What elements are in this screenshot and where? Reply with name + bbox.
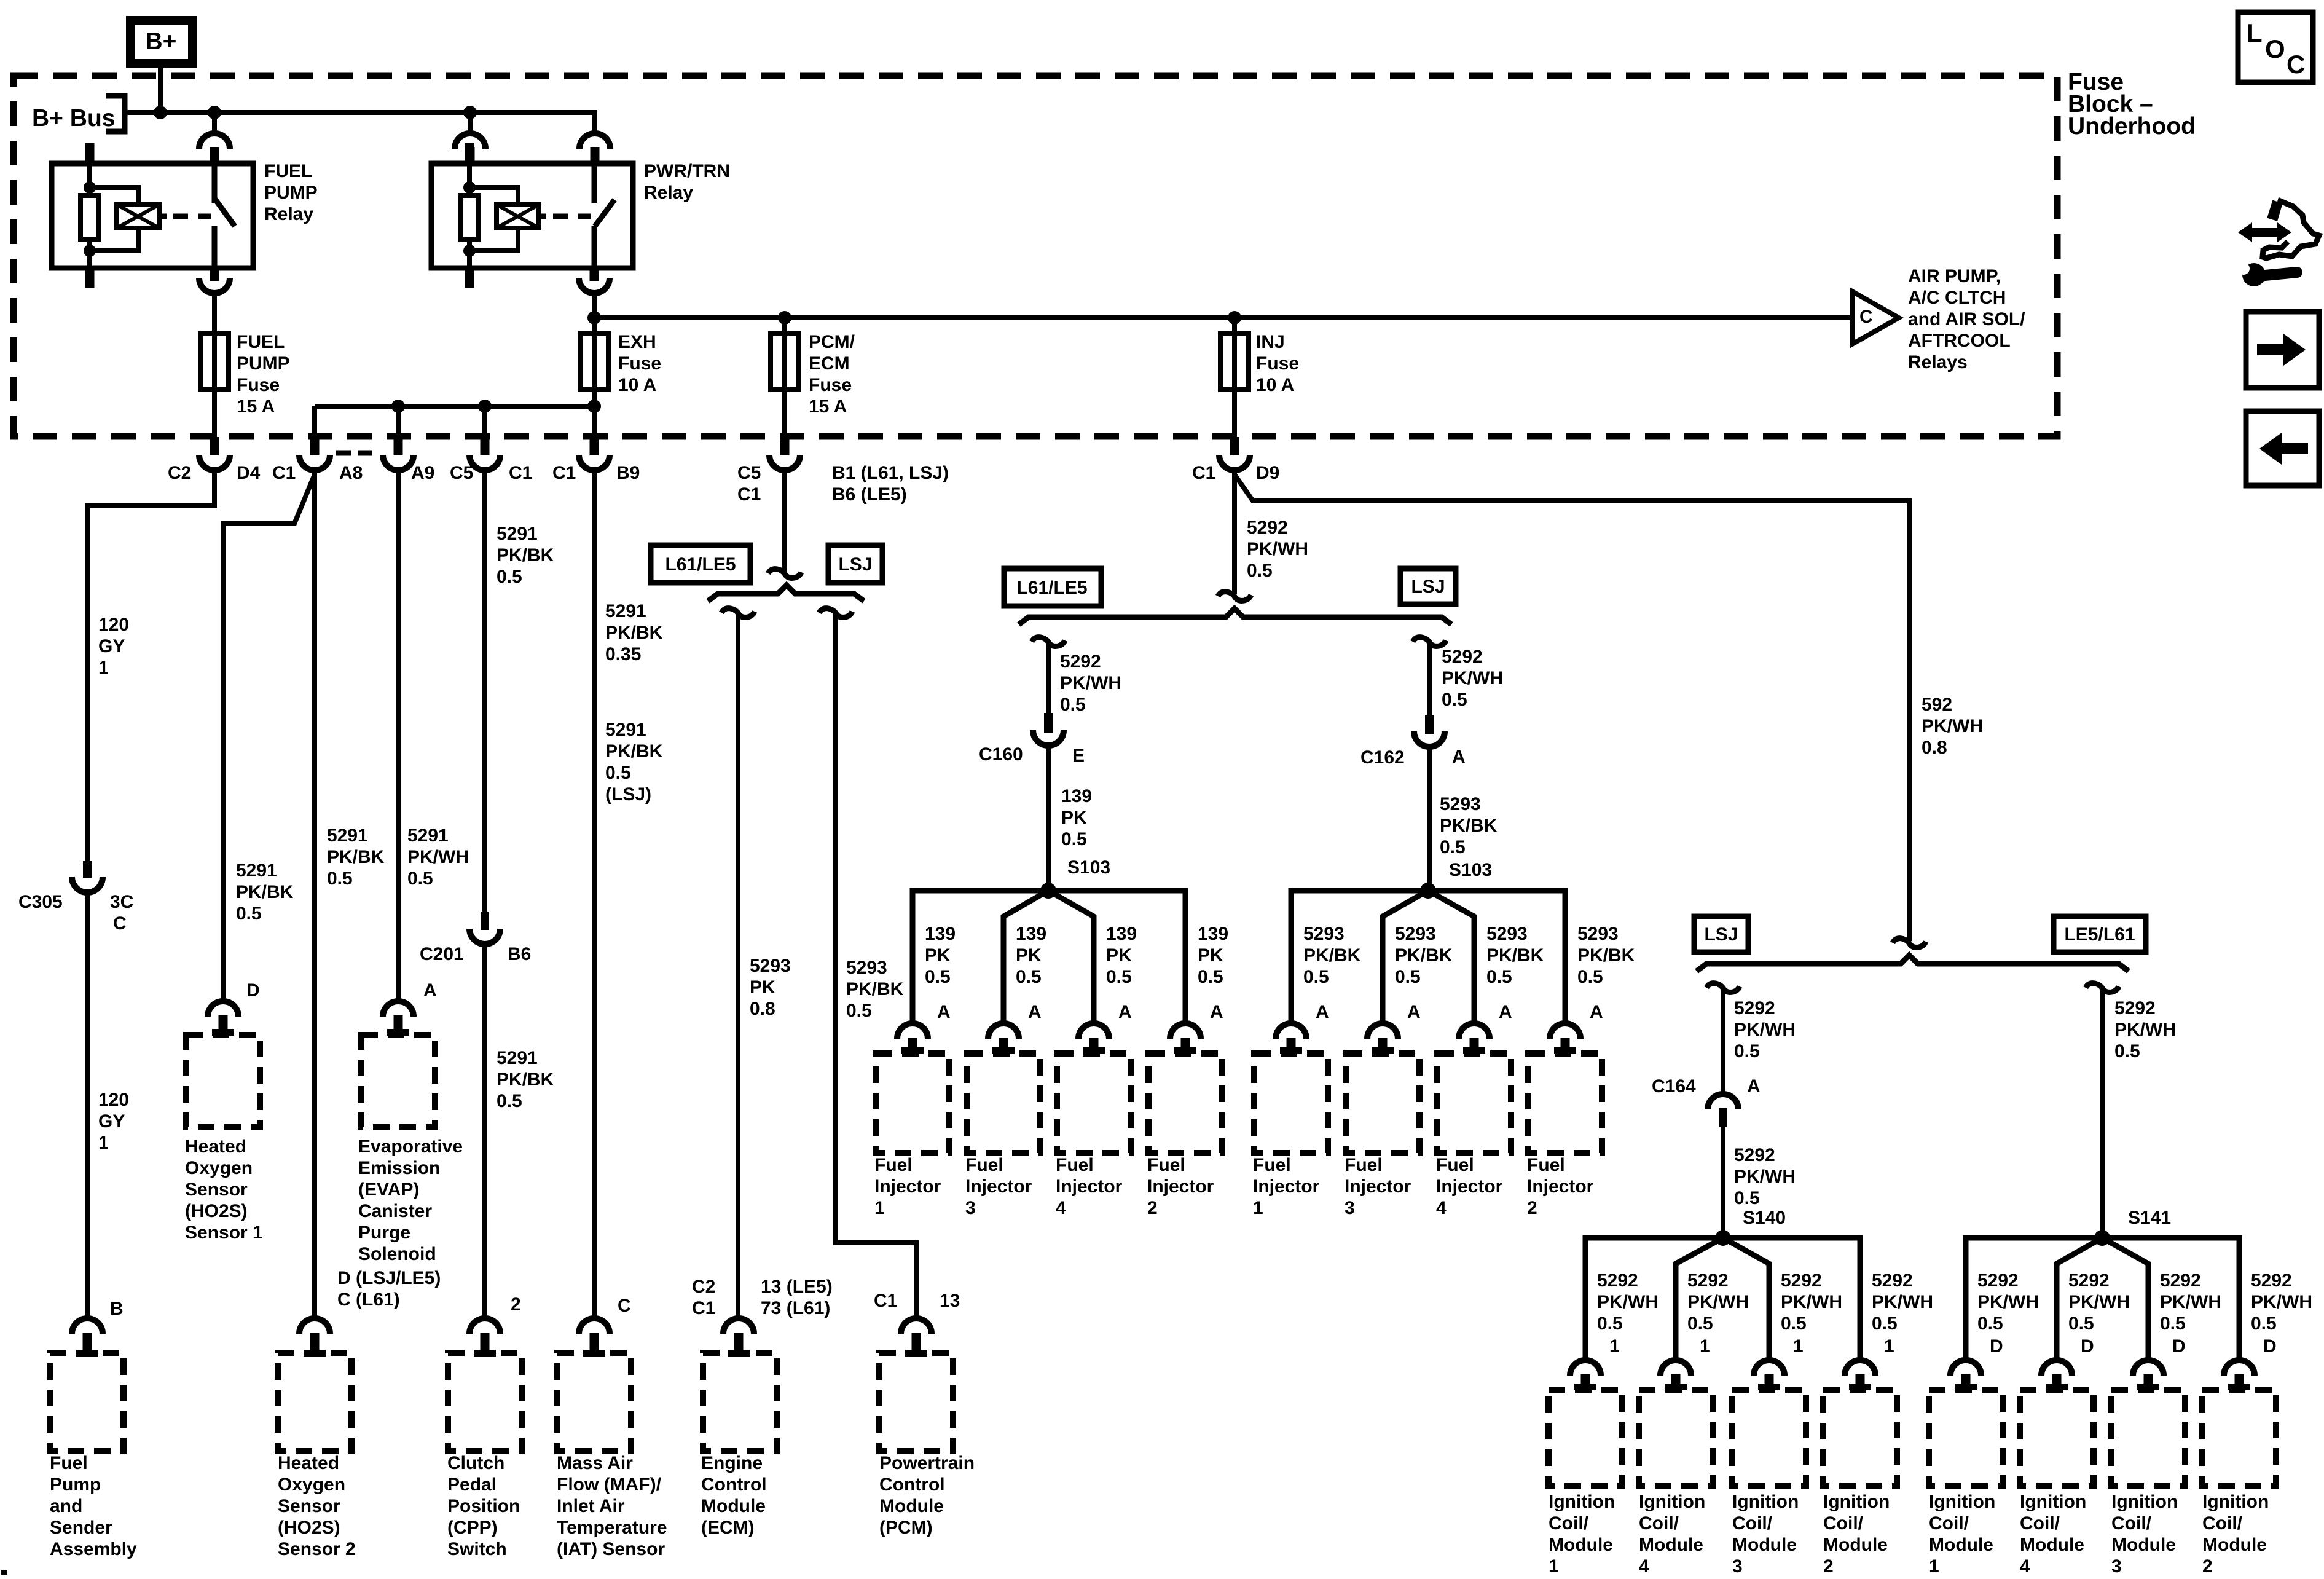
splice fan-out wires [1291, 891, 1565, 1025]
connector fuse block exit at x=1277 [780, 437, 790, 455]
svg-text:Fuel: Fuel [1527, 1155, 1565, 1175]
svg-text:0.5: 0.5 [1486, 967, 1512, 987]
fuse INJ Fuse 10A [1220, 334, 1249, 390]
triangle connector C to other relays [1852, 291, 1899, 344]
label 139 PK 0.5 [1061, 786, 1092, 849]
svg-text:PCM/: PCM/ [809, 332, 855, 352]
svg-text:Fuel: Fuel [1436, 1155, 1474, 1175]
svg-text:Engine: Engine [701, 1453, 763, 1473]
svg-text:PK/WH: PK/WH [2160, 1292, 2221, 1312]
collector wire from EXH fuse output [315, 404, 594, 409]
svg-text:Injector: Injector [1436, 1176, 1503, 1197]
svg-text:5292: 5292 [2114, 998, 2156, 1018]
splice dot [1420, 883, 1436, 899]
connector pwr/trn relay coil pin top [455, 133, 485, 149]
svg-text:C: C [1859, 307, 1873, 327]
pin label C1 [509, 463, 532, 483]
pin label C5 C1 [737, 463, 761, 505]
svg-text:and AIR SOL/: and AIR SOL/ [1908, 309, 2025, 329]
icon arrow left [2246, 411, 2319, 486]
svg-text:FUEL: FUEL [237, 332, 285, 352]
svg-text:PK: PK [750, 977, 775, 998]
connector ignition coil pin 1 [1754, 1360, 1784, 1376]
svg-text:Coil/: Coil/ [2020, 1513, 2060, 1534]
label Heated Oxygen Sensor (HO2S) Sensor 1 [185, 1136, 263, 1243]
connector HO2S1 pin D [208, 1001, 238, 1017]
svg-text:Solenoid: Solenoid [358, 1244, 436, 1264]
component box Ignition Coil/Module 4 [2020, 1390, 2094, 1486]
junction dot PCM/ECM tap [778, 311, 791, 325]
connector fuel injector pin A [1459, 1023, 1490, 1039]
svg-text:592: 592 [1922, 695, 1952, 715]
svg-text:Injector: Injector [1345, 1176, 1411, 1197]
main feed wire to fuses and C triangle [594, 315, 1852, 320]
svg-text:Coil/: Coil/ [2111, 1513, 2152, 1534]
svg-text:S103: S103 [1449, 860, 1492, 880]
svg-text:Fuse: Fuse [1256, 353, 1299, 374]
component box Fuel Injector 4 [1057, 1053, 1131, 1153]
B+ Bus bracket symbol [106, 96, 125, 132]
relay switch bottom pin PWR/TRN Relay [590, 268, 599, 281]
pin label 1 [1884, 1336, 1894, 1357]
svg-text:B6 (LE5): B6 (LE5) [832, 484, 907, 505]
svg-text:5292: 5292 [1247, 518, 1288, 538]
svg-text:120: 120 [98, 615, 129, 635]
relay coil pin stubs FUEL PUMP Relay [85, 143, 95, 163]
splice dot [1715, 1230, 1731, 1246]
svg-text:Sensor: Sensor [278, 1496, 340, 1516]
svg-text:Powertrain: Powertrain [879, 1453, 975, 1473]
wire collector to D4/C1 out [312, 406, 317, 437]
label Engine Control Module (ECM) [701, 1453, 767, 1538]
svg-text:0.5: 0.5 [407, 868, 433, 889]
svg-text:Module: Module [1823, 1535, 1888, 1555]
svg-text:Assembly: Assembly [50, 1539, 137, 1559]
connector fuel injector pin A [897, 1023, 928, 1039]
tag box LSJ [828, 545, 882, 583]
label Ignition Coil/Module 1 [1549, 1492, 1615, 1577]
svg-text:PK/BK: PK/BK [497, 1069, 554, 1090]
junction dot B+ drop [154, 106, 167, 119]
icon service tools [2263, 201, 2319, 258]
pin label D9 [1256, 463, 1279, 483]
component box Ignition Coil/Module 1 [1929, 1390, 2003, 1486]
label Fuel Injector 3 [965, 1155, 1032, 1218]
label 5291 PK/BK 0.5 A9 lane [497, 524, 554, 587]
label 5292 PK/WH 0.5 S141 lane [2114, 998, 2176, 1061]
svg-text:0.5: 0.5 [1060, 695, 1086, 715]
svg-text:D9: D9 [1256, 463, 1279, 483]
svg-text:139: 139 [925, 924, 956, 944]
tag box LSJ second [1400, 569, 1456, 604]
wire INJ fuse tap through fuse [1232, 318, 1237, 437]
label Ignition Coil/Module 2 [2202, 1492, 2269, 1577]
connector pwr/trn relay switch pin top [579, 133, 610, 149]
svg-text:PK: PK [1198, 945, 1223, 966]
pin label D [246, 980, 260, 1001]
svg-text:(CPP): (CPP) [447, 1518, 498, 1538]
svg-text:Heated: Heated [185, 1136, 246, 1157]
svg-text:B6: B6 [508, 944, 531, 964]
pin label 3C C [110, 892, 133, 912]
wire C2 to C305 fuel pump lane [87, 473, 214, 861]
svg-text:INJ: INJ [1256, 332, 1285, 352]
fuse PCM/ECM Fuse 15A [771, 334, 799, 390]
svg-text:C1: C1 [1192, 463, 1215, 483]
branch hook C164 lane [1706, 983, 1740, 993]
component box Fuel Injector 3 [1346, 1053, 1419, 1153]
label Ignition Coil/Module 4 [1639, 1492, 1705, 1577]
svg-text:5291: 5291 [497, 524, 538, 544]
svg-text:Pedal: Pedal [447, 1475, 497, 1495]
svg-text:0.5: 0.5 [1687, 1313, 1713, 1334]
junction dot pwr/trn relay tap [463, 106, 477, 119]
splice fan-out wires [913, 891, 1185, 1025]
svg-text:1: 1 [1884, 1336, 1894, 1357]
connector fuel injector pin A [1276, 1023, 1306, 1039]
wire label 5292 PK/WH 0.5 coil lane [2251, 1270, 2312, 1334]
relay linkage dashes PWR/TRN Relay [539, 214, 546, 219]
svg-text:Coil/: Coil/ [1929, 1513, 1969, 1534]
wire label 139 PK 0.5 injector lane [1016, 924, 1046, 987]
svg-text:ECM: ECM [809, 353, 850, 374]
svg-text:A: A [1210, 1002, 1223, 1022]
svg-text:Ignition: Ignition [1639, 1492, 1705, 1512]
connector CPP pin 2 [469, 1318, 500, 1334]
svg-text:LSJ: LSJ [1704, 924, 1738, 945]
svg-text:FUEL: FUEL [264, 161, 312, 181]
pin label D4 [237, 463, 261, 483]
label S103 second [1449, 860, 1492, 880]
pin label C2 C1 [692, 1277, 715, 1318]
label S141 [2128, 1208, 2171, 1228]
svg-text:1: 1 [1929, 1556, 1939, 1577]
wire C201 to CPP switch [482, 947, 487, 1316]
svg-text:0.5: 0.5 [2114, 1041, 2140, 1061]
svg-text:Injector: Injector [1147, 1176, 1214, 1197]
svg-text:Module: Module [1732, 1535, 1797, 1555]
component box Fuel Injector 2 [1148, 1053, 1222, 1153]
svg-text:Mass Air: Mass Air [557, 1453, 633, 1473]
svg-text:Underhood: Underhood [2068, 113, 2196, 140]
svg-text:0.5: 0.5 [1106, 967, 1132, 987]
wire bus to fuel pump relay switch [212, 112, 217, 131]
svg-text:5292: 5292 [1442, 647, 1483, 667]
svg-text:(EVAP): (EVAP) [358, 1179, 419, 1200]
svg-text:D: D [2081, 1336, 2094, 1357]
svg-text:D: D [2263, 1336, 2277, 1357]
svg-text:C (L61): C (L61) [337, 1290, 400, 1310]
svg-text:A: A [1118, 1002, 1132, 1022]
svg-text:A: A [1316, 1002, 1329, 1022]
pin label C [618, 1296, 631, 1316]
svg-text:Ignition: Ignition [1929, 1492, 1995, 1512]
pin label B9 [616, 463, 640, 483]
component box EVAP Canister Purge Solenoid [361, 1035, 435, 1127]
svg-text:0.5: 0.5 [1247, 561, 1273, 581]
component box Ignition Coil/Module 2 [2202, 1390, 2276, 1486]
label PWR/TRN Relay [644, 161, 730, 203]
connector EVAP pin A [383, 1001, 414, 1017]
ignition split brace LSJ vs LE5/L61 [1697, 955, 2129, 971]
svg-text:GY: GY [98, 1111, 125, 1132]
wire label 139 PK 0.5 injector lane [925, 924, 956, 987]
svg-text:A: A [1407, 1002, 1421, 1022]
svg-text:4: 4 [1639, 1556, 1649, 1577]
connector ignition coil pin 1 [1570, 1360, 1601, 1376]
svg-text:3: 3 [1345, 1198, 1355, 1218]
wire label 139 PK 0.5 injector lane [1106, 924, 1137, 987]
label 5292 PK/WH 0.5 above S140 [1734, 1145, 1796, 1208]
svg-text:5292: 5292 [1060, 652, 1101, 672]
svg-text:Module: Module [1929, 1535, 1993, 1555]
svg-text:B: B [110, 1299, 124, 1319]
svg-text:Ignition: Ignition [1732, 1492, 1799, 1512]
label C164 [1652, 1076, 1696, 1097]
svg-text:C1: C1 [874, 1291, 897, 1311]
svg-text:5293: 5293 [1486, 924, 1528, 944]
pin label A [1747, 1076, 1761, 1097]
wire B1/B6 lane to split [782, 473, 787, 572]
svg-text:3C: 3C [110, 892, 133, 912]
label Fuel Injector 2 [1147, 1155, 1214, 1218]
label B+ Bus [32, 105, 115, 132]
svg-text:5292: 5292 [1872, 1270, 1913, 1291]
svg-text:C: C [2287, 50, 2305, 79]
svg-text:0.5: 0.5 [1597, 1313, 1623, 1334]
pin label A8 [339, 463, 363, 483]
svg-text:PK/WH: PK/WH [1872, 1292, 1933, 1312]
svg-text:Injector: Injector [1056, 1176, 1123, 1197]
component box Engine Control Module [703, 1353, 777, 1451]
svg-text:0.5: 0.5 [1061, 829, 1087, 849]
relay coil pin stubs PWR/TRN Relay [465, 143, 474, 163]
label Fuel Injector 1 [1253, 1155, 1320, 1218]
svg-text:C1: C1 [272, 463, 296, 483]
svg-text:and: and [50, 1496, 82, 1516]
svg-text:C1: C1 [509, 463, 532, 483]
svg-text:Ignition: Ignition [2111, 1492, 2178, 1512]
label 120 GY 1 [98, 615, 129, 678]
B+ power feed symbol [130, 20, 192, 63]
svg-text:Fuel: Fuel [1147, 1155, 1185, 1175]
wire bus to pwr/trn relay coil [468, 112, 473, 131]
svg-text:5291: 5291 [605, 601, 646, 621]
wire C162 to S103 second [1427, 749, 1432, 891]
wire label 139 PK 0.5 injector lane [1198, 924, 1228, 987]
svg-text:2: 2 [1527, 1198, 1537, 1218]
svg-text:0.5: 0.5 [1395, 967, 1421, 987]
wire to C164 [1721, 987, 1725, 1092]
svg-text:C164: C164 [1652, 1076, 1696, 1097]
svg-text:O: O [2265, 34, 2285, 63]
svg-text:C: C [113, 913, 127, 934]
svg-text:0.5: 0.5 [497, 1091, 522, 1111]
label FUEL PUMP Fuse 15 A [237, 332, 290, 417]
svg-text:B9: B9 [616, 463, 640, 483]
pin label 1 [1793, 1336, 1804, 1357]
svg-text:C2: C2 [692, 1277, 715, 1297]
connector fuel pump relay pin top [199, 133, 230, 149]
svg-text:B1 (L61, LSJ): B1 (L61, LSJ) [832, 463, 949, 483]
tag box LSJ third [1694, 916, 1748, 952]
svg-text:Control: Control [701, 1475, 767, 1495]
wire B+ to bus [158, 63, 163, 112]
svg-text:Relay: Relay [264, 204, 313, 224]
svg-text:0.5: 0.5 [236, 904, 262, 924]
svg-text:Fuse: Fuse [618, 353, 661, 374]
svg-text:(ECM): (ECM) [701, 1518, 755, 1538]
component box Fuel Injector 3 [967, 1053, 1040, 1153]
fuse EXH Fuse 10A [580, 334, 608, 390]
label Fuse Block - Underhood [2068, 69, 2196, 140]
wire label 5292 PK/WH 0.5 coil lane [1977, 1270, 2039, 1334]
label 592 PK/WH 0.8 [1922, 695, 1983, 758]
svg-text:(HO2S): (HO2S) [185, 1201, 248, 1221]
junction dot INJ tap [1228, 311, 1241, 325]
connector ignition coil pin D [2041, 1360, 2072, 1376]
svg-text:3: 3 [2111, 1556, 2122, 1577]
svg-text:PUMP: PUMP [237, 353, 290, 374]
svg-text:Ignition: Ignition [1549, 1492, 1615, 1512]
svg-text:Module: Module [2202, 1535, 2267, 1555]
svg-text:L61/LE5: L61/LE5 [665, 554, 736, 575]
wire C164 to S140 [1721, 1127, 1725, 1238]
svg-text:AIR PUMP,: AIR PUMP, [1908, 266, 2001, 286]
svg-text:Fuse: Fuse [237, 375, 280, 395]
pin label A [1499, 1002, 1512, 1022]
svg-text:2: 2 [2202, 1556, 2213, 1577]
svg-text:Coil/: Coil/ [2202, 1513, 2243, 1534]
label Mass Air Flow (MAF)/Inlet Air Temperature (IAT) Sensor [557, 1453, 667, 1559]
wire fuel pump relay through fuse to C2 out [212, 296, 217, 437]
svg-text:PK/BK: PK/BK [846, 979, 904, 999]
label Evaporative Emission (EVAP) Canister Purge Solenoid [358, 1136, 463, 1264]
svg-text:5292: 5292 [1734, 1145, 1775, 1165]
fuse FUEL PUMP Fuse 15A [200, 334, 229, 390]
svg-text:Module: Module [2111, 1535, 2176, 1555]
svg-text:Ignition: Ignition [2020, 1492, 2086, 1512]
svg-text:Oxygen: Oxygen [185, 1158, 253, 1178]
svg-text:Fuel: Fuel [1056, 1155, 1094, 1175]
label Fuel Injector 4 [1056, 1155, 1123, 1218]
svg-text:5293: 5293 [846, 958, 887, 978]
connector C305 [83, 861, 92, 878]
wire label 5292 PK/WH 0.5 coil lane [1687, 1270, 1749, 1334]
svg-text:5293: 5293 [750, 956, 791, 976]
svg-text:73 (L61): 73 (L61) [761, 1298, 830, 1318]
pin label A [1210, 1002, 1223, 1022]
svg-text:Module: Module [701, 1496, 766, 1516]
connector ignition coil pin 1 [1845, 1360, 1875, 1376]
wire C1 branch diagonal to HO2S1 [223, 474, 315, 999]
svg-text:PK/BK: PK/BK [1577, 945, 1635, 966]
wire to C160 [1046, 641, 1051, 713]
svg-text:A: A [1499, 1002, 1512, 1022]
connector fuse block exit at x=648 [394, 437, 403, 455]
connector ECM pin [723, 1318, 754, 1334]
wire label 5293 PK/BK 0.5 injector lane [1303, 924, 1361, 987]
svg-text:PK/WH: PK/WH [407, 847, 469, 867]
connector fuel injector pin A [1170, 1023, 1201, 1039]
svg-text:Sensor: Sensor [185, 1179, 248, 1200]
svg-text:LE5/L61: LE5/L61 [2064, 924, 2135, 945]
icon arrow right [2246, 312, 2319, 388]
connector ignition coil pin D [2224, 1360, 2255, 1376]
wire B9 lane to MAF [592, 473, 597, 1316]
connector PCM pin 13 [901, 1318, 932, 1334]
pin label C1 [874, 1291, 897, 1311]
svg-text:0.5: 0.5 [1442, 690, 1467, 710]
svg-text:PK: PK [1061, 808, 1087, 828]
svg-text:5292: 5292 [1977, 1270, 2019, 1291]
svg-text:15 A: 15 A [237, 396, 275, 417]
component box Ignition Coil/Module 4 [1639, 1390, 1713, 1486]
svg-text:A: A [1747, 1076, 1761, 1097]
component box Ignition Coil/Module 3 [1732, 1390, 1806, 1486]
connector ignition coil pin 1 [1660, 1360, 1691, 1376]
svg-text:PK/WH: PK/WH [1597, 1292, 1659, 1312]
wire PCM/ECM fuse tap through fuse [782, 318, 787, 437]
connector C164 pin A [1708, 1094, 1738, 1109]
svg-text:Sensor 1: Sensor 1 [185, 1223, 263, 1243]
wire end squiggle ignition feed [1893, 939, 1926, 948]
svg-text:D: D [1990, 1336, 2003, 1357]
label Ignition Coil/Module 2 [1823, 1492, 1890, 1577]
svg-text:5292: 5292 [2251, 1270, 2292, 1291]
connector HO2S2 pin [299, 1318, 330, 1334]
svg-text:5292: 5292 [1597, 1270, 1638, 1291]
component box Fuel Pump and Sender Assembly [50, 1353, 124, 1451]
pin label E [1072, 746, 1085, 766]
svg-text:0.5: 0.5 [2251, 1313, 2277, 1334]
svg-text:5291: 5291 [407, 825, 449, 846]
svg-text:PK/BK: PK/BK [327, 847, 385, 867]
svg-text:(HO2S): (HO2S) [278, 1518, 340, 1538]
svg-text:Coil/: Coil/ [1549, 1513, 1589, 1534]
branch hook PCM lane [819, 608, 852, 618]
connector fuse block exit at x=349 [210, 437, 219, 455]
svg-text:0.5: 0.5 [1977, 1313, 2003, 1334]
component box HO2S Sensor 1 [186, 1035, 260, 1127]
svg-text:0.5: 0.5 [1303, 967, 1329, 987]
svg-text:2: 2 [1147, 1198, 1158, 1218]
svg-text:A: A [937, 1002, 951, 1022]
svg-text:5291: 5291 [605, 720, 646, 740]
svg-text:C5: C5 [450, 463, 473, 483]
splice fan-out wires [1966, 1238, 2239, 1361]
pin label D (LSJ/LE5) C (L61) [337, 1268, 441, 1310]
svg-text:5292: 5292 [1781, 1270, 1822, 1291]
svg-text:C305: C305 [18, 892, 63, 912]
svg-text:Temperature: Temperature [557, 1518, 667, 1538]
svg-text:Control: Control [879, 1475, 945, 1495]
svg-text:5293: 5293 [1440, 794, 1481, 814]
splice dot [2094, 1230, 2110, 1246]
svg-text:0.8: 0.8 [1922, 738, 1947, 758]
svg-text:(PCM): (PCM) [879, 1518, 933, 1538]
svg-text:1: 1 [1609, 1336, 1620, 1357]
relay coil with resistor PWR/TRN Relay [467, 163, 472, 195]
svg-text:PK/BK: PK/BK [1395, 945, 1453, 966]
dashed connector tie line [336, 451, 376, 456]
svg-text:Module: Module [2020, 1535, 2084, 1555]
icon box LOC [2238, 12, 2313, 82]
label 5293 PK 0.8 [750, 956, 791, 1019]
pin label 2 [511, 1294, 521, 1315]
svg-text:PK/BK: PK/BK [236, 882, 294, 902]
pin label C1 [552, 463, 576, 483]
